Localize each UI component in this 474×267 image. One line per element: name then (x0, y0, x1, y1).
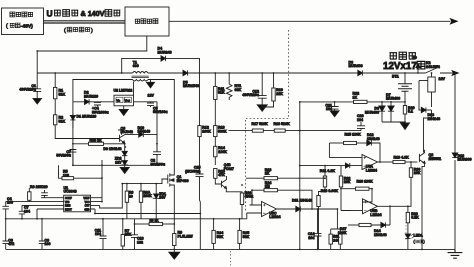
wire: Q1 source to rail (173, 191, 175, 234)
svg-text:130K: 130K (218, 150, 227, 154)
ground: earth bottom right (448, 249, 463, 258)
wire: relay drive down to Q2 (424, 110, 432, 153)
svg-text:LED1: LED1 (414, 233, 423, 237)
resistor R13 (214, 126, 217, 137)
ground: regulator U2 (123, 106, 125, 110)
wire: rail x199.5 (199, 73, 201, 126)
transistor Q1 MOSFET (168, 173, 170, 186)
svg-text:68K: 68K (235, 88, 242, 92)
resistor R6A (140, 184, 142, 192)
relay K2 coil (428, 77, 435, 92)
svg-text:R17 510K: R17 510K (252, 122, 269, 126)
resistor R15 (214, 169, 217, 179)
wire: secondary to left rail (73, 80, 133, 102)
wire: R17 R18 row (229, 130, 362, 132)
svg-text:UC3843: UC3843 (64, 190, 77, 194)
resistor R24 feedback (250, 190, 265, 205)
diode D6 (381, 102, 383, 106)
svg-text:12V: 12V (148, 93, 155, 97)
svg-text:VREF: VREF (83, 198, 90, 200)
op-amp U5A (362, 155, 378, 170)
resistor R26 (340, 188, 356, 190)
diode D1 on left rail (72, 113, 74, 116)
wire: L drop from mux to main bus (37, 36, 147, 73)
capacitor C8 (5, 219, 7, 241)
svg-text:400V220u: 400V220u (19, 88, 36, 92)
svg-text:2N5551: 2N5551 (429, 157, 442, 161)
diode D11 (296, 206, 301, 211)
wire: VCC rail up (101, 160, 103, 202)
svg-text:1K: 1K (353, 96, 358, 100)
resistor R14 (214, 146, 217, 157)
diode D13 (421, 107, 426, 112)
svg-text:LM324: LM324 (370, 213, 381, 217)
resistor R32 (340, 166, 342, 176)
diode D14 (381, 222, 386, 227)
diode D7 (390, 102, 392, 106)
junction dots (54, 72, 56, 74)
resistor R35 (239, 219, 241, 231)
op-amp U5C (262, 202, 277, 217)
svg-text:103: 103 (45, 242, 51, 246)
svg-text:BT1: BT1 (392, 74, 399, 78)
svg-text:24V: 24V (159, 196, 166, 200)
resistor pair R31 R33 (331, 209, 341, 234)
wire: D6 D7 join (382, 121, 405, 123)
svg-text:1N4148: 1N4148 (367, 137, 380, 141)
svg-text:R18 510K: R18 510K (274, 122, 291, 126)
diode D9 (124, 144, 126, 152)
wire: to Q2 base (405, 161, 417, 163)
svg-text:51K: 51K (59, 119, 66, 123)
resistor R19 4.3K (393, 160, 405, 163)
resistor R21 (324, 166, 326, 176)
capacitor C7 (72, 148, 74, 150)
svg-text:50V100u: 50V100u (153, 110, 168, 114)
relay K2 contact (426, 68, 452, 73)
wire: right rail to C2 (156, 102, 158, 152)
svg-text:12V: 12V (115, 160, 122, 164)
capacitor C13 (134, 219, 136, 235)
wire: secondary right to Q1 drain (148, 80, 174, 173)
resistor R22 (354, 100, 368, 103)
svg-text:104: 104 (357, 118, 363, 122)
svg-text:PC817: PC817 (224, 167, 234, 171)
transformer T1 primary (133, 72, 148, 74)
resistor R7 (122, 219, 124, 235)
svg-text:(3KV502): (3KV502) (185, 169, 201, 173)
op-amp U5B (363, 199, 378, 214)
ground: C1 (33, 99, 42, 105)
wire: U5C in+ drop (247, 212, 250, 214)
wire: Q3 collector up (118, 130, 122, 135)
resistor R28 (406, 212, 409, 222)
svg-text:50V1000u: 50V1000u (92, 111, 109, 115)
resistor R30 (410, 162, 412, 168)
wire: bus to battery with arrow (169, 20, 451, 22)
svg-text:R21 6.2K: R21 6.2K (320, 169, 336, 173)
ground: main (173, 249, 175, 252)
transistor Q4 (222, 180, 227, 189)
wire: U5A in+ line (341, 165, 362, 167)
svg-text:R29 2K: R29 2K (90, 138, 103, 142)
resistor R29 (89, 142, 104, 145)
svg-text:102: 102 (137, 240, 143, 244)
svg-text:104: 104 (95, 232, 101, 236)
svg-text:100K: 100K (143, 194, 152, 198)
regulator U2 (114, 95, 134, 106)
svg-text:120K: 120K (338, 231, 347, 235)
svg-text:100K: 100K (202, 129, 211, 133)
svg-text:12V: 12V (439, 77, 446, 81)
svg-text:OUT: OUT (85, 206, 90, 208)
svg-text:D1 MUR120: D1 MUR120 (77, 115, 97, 119)
diode D9b near bus (417, 68, 419, 74)
resistor R17 (252, 129, 263, 132)
ground: transformer tap (150, 80, 152, 83)
capacitor C11 (102, 219, 104, 236)
IC U1 UC3843 (64, 195, 91, 212)
svg-text:24SJW4: 24SJW4 (426, 65, 440, 69)
resistor R8 (135, 223, 150, 225)
diode D12 feedback (367, 140, 372, 145)
wire: U5C out to D11 (277, 208, 338, 210)
svg-text:10K: 10K (344, 180, 351, 184)
svg-text:51K: 51K (59, 92, 66, 96)
svg-text:VCC: VCC (85, 202, 90, 204)
resistor R10 (273, 73, 275, 88)
svg-text:MUR860: MUR860 (458, 158, 472, 162)
svg-text:47K: 47K (218, 173, 225, 177)
wire: U1 right pin stubs (91, 198, 103, 209)
wire: U5A in- row (329, 143, 362, 158)
wire: left rail of regulator block (72, 102, 74, 166)
ground: C21 (330, 111, 339, 117)
svg-text:PL5L/2W: PL5L/2W (178, 234, 194, 238)
diode D10 after Q3 (139, 132, 144, 137)
svg-text:C10: C10 (42, 185, 48, 189)
svg-text:D9 1N4148: D9 1N4148 (103, 147, 121, 151)
capacitor C4b (5, 202, 7, 207)
wire: D4 bypass branch (122, 58, 200, 73)
wire: rail2 bottom (6, 248, 455, 250)
svg-text:6.2K: 6.2K (411, 216, 419, 220)
ground: ZD2 (120, 168, 129, 174)
svg-text:R25 130K: R25 130K (345, 133, 362, 137)
zener ZD1 (155, 184, 157, 194)
svg-text:Vin: Vin (116, 98, 120, 102)
svg-text:20K: 20K (125, 233, 132, 237)
diode D4 (161, 56, 166, 61)
label: central office text (10, 12, 15, 17)
ground: R20 (404, 122, 406, 123)
capacitor C12 (261, 73, 263, 96)
wire: R29 row (73, 143, 125, 145)
resistor R34 (213, 219, 215, 231)
svg-text:56K: 56K (243, 235, 250, 239)
svg-text:56K: 56K (217, 235, 224, 239)
svg-text:): ) (424, 240, 425, 244)
svg-text:U: U (47, 9, 53, 19)
capacitor C7b (21, 205, 23, 211)
svg-text:12Vx17: 12Vx17 (383, 61, 417, 72)
resistor R27 (348, 224, 359, 226)
svg-text:10u: 10u (308, 236, 314, 240)
svg-text:(: ( (64, 28, 66, 34)
svg-text:R19 4.3K: R19 4.3K (394, 156, 410, 160)
svg-text:& 140V: & 140V (81, 9, 105, 18)
wire: OUT to gate line (100, 179, 168, 208)
ground: C12 (257, 105, 267, 112)
svg-text:R19 9.06K: R19 9.06K (321, 189, 339, 193)
svg-text:1N4148: 1N4148 (428, 117, 441, 121)
svg-text:R8 1K: R8 1K (150, 219, 160, 223)
transformer T1 core (132, 76, 149, 77)
wire: rail1 (6, 213, 247, 219)
svg-text:MUR1540: MUR1540 (183, 84, 199, 88)
svg-text:D11 1N4148: D11 1N4148 (292, 199, 312, 203)
resistor R18 (274, 129, 285, 132)
svg-text:2SJ342: 2SJ342 (121, 130, 133, 134)
svg-text:MUR486: MUR486 (365, 110, 379, 114)
wire: U5B in+ line (350, 210, 363, 212)
wire: 12V aux rail (300, 101, 405, 103)
svg-text:50V100u: 50V100u (56, 154, 71, 158)
svg-text:ISEN: ISEN (65, 206, 71, 208)
svg-text:U2 LM7812: U2 LM7812 (114, 88, 133, 92)
capacitor C25 (196, 174, 204, 177)
svg-text:430R: 430R (245, 195, 254, 199)
wire: Q3 base row (73, 138, 120, 140)
resistor R1 (54, 73, 56, 87)
wire: gnd row (95, 213, 200, 215)
svg-text:LM324: LM324 (366, 169, 377, 173)
resistor R19b (317, 196, 320, 207)
resistor R11 (214, 73, 216, 86)
wire: U1 left pin stubs (6, 198, 64, 209)
transistor Q2 (419, 153, 424, 164)
svg-text:1N4148: 1N4148 (138, 130, 151, 134)
svg-text:-48V): -48V) (21, 23, 33, 29)
resistor R23 (246, 177, 264, 179)
wire: freewheel loop (419, 81, 421, 111)
svg-text:MUR486: MUR486 (349, 64, 363, 68)
box: multiplexer circuit (125, 7, 169, 36)
capacitor C1 (36, 73, 38, 89)
box: central office circuit (2, 8, 44, 35)
capacitor C9 (41, 219, 43, 241)
svg-text:103: 103 (7, 201, 13, 205)
wire: regulator block bottom rail (73, 164, 157, 166)
svg-text:21K: 21K (276, 92, 283, 96)
wire: GND pin down (94, 209, 96, 214)
svg-text:104: 104 (24, 210, 30, 214)
resistor R12 (198, 126, 201, 137)
svg-text:R26 130K: R26 130K (357, 180, 374, 184)
svg-text:5.1: 5.1 (408, 110, 413, 114)
LED LED1 (405, 234, 410, 238)
diode D2 (85, 99, 90, 104)
resistor R16 (226, 190, 242, 193)
svg-text:400V220u: 400V220u (242, 93, 259, 97)
capacitor C5 (150, 102, 152, 103)
svg-text:D9: D9 (413, 56, 417, 60)
svg-text:600: 600 (133, 64, 139, 68)
capacitor C4 (97, 101, 99, 104)
svg-text:91K: 91K (218, 91, 225, 95)
svg-text:): ) (91, 28, 93, 34)
svg-text:COMP: COMP (65, 198, 72, 200)
svg-text:MUR486: MUR486 (386, 97, 400, 101)
svg-text:IRP460: IRP460 (177, 179, 189, 183)
capacitor C21 (334, 102, 336, 107)
svg-text:50V100u: 50V100u (151, 163, 166, 167)
svg-text:560K: 560K (218, 129, 227, 133)
thermistor RT1 (226, 73, 232, 100)
diode D8 on bus (358, 70, 363, 75)
wire: twisted pair double line (44, 21, 126, 23)
resistor R25 (329, 142, 343, 144)
svg-text:VFB: VFB (65, 202, 70, 204)
svg-text:Vout: Vout (125, 98, 130, 102)
wire: U5B out (378, 206, 408, 225)
capacitor C2 (153, 152, 161, 155)
wire: U5C inputs (247, 205, 262, 213)
capacitor C14 (317, 209, 319, 233)
capacitor C10 (44, 190, 46, 193)
dashed isolation boundary (246, 30, 289, 211)
svg-text:10: 10 (129, 194, 133, 198)
resistor R20 (404, 102, 406, 106)
transistor Q3 (120, 134, 126, 143)
wire: U5A out (378, 161, 394, 163)
resistor R3c 10 (126, 184, 128, 192)
svg-text:1N4148: 1N4148 (374, 233, 387, 237)
label: multiplexer text (135, 19, 140, 23)
transformer T1 secondary (133, 80, 148, 82)
svg-text:240: 240 (333, 238, 339, 242)
svg-text:LM324: LM324 (269, 215, 280, 219)
svg-text:472: 472 (8, 242, 14, 246)
wire: mid 166 row (300, 165, 341, 167)
svg-text:1K: 1K (265, 172, 270, 176)
svg-text:RT/CT: RT/CT (65, 209, 72, 211)
wire: main 140V bus (37, 72, 132, 74)
svg-text:20K: 20K (414, 171, 421, 175)
svg-text:130: 130 (63, 173, 69, 177)
battery BT1 (404, 73, 406, 84)
resistor R3 20K (28, 192, 31, 201)
wire: 12V internal rail (73, 101, 157, 103)
label: battery chinese (389, 53, 397, 60)
wire: right rail (454, 73, 456, 249)
svg-text:MUR246: MUR246 (158, 50, 172, 54)
diode D5 (183, 70, 188, 75)
svg-text:MUR120: MUR120 (84, 95, 98, 99)
svg-text:GND: GND (84, 209, 89, 211)
diode D10b on right rail (452, 153, 458, 158)
resistor R2 (54, 115, 57, 125)
resistor R9 (173, 234, 176, 246)
resistor R5 130 (59, 165, 63, 178)
svg-text:1M: 1M (265, 185, 270, 189)
capacitor C26 (360, 122, 362, 126)
zener ZD2 (124, 156, 126, 161)
